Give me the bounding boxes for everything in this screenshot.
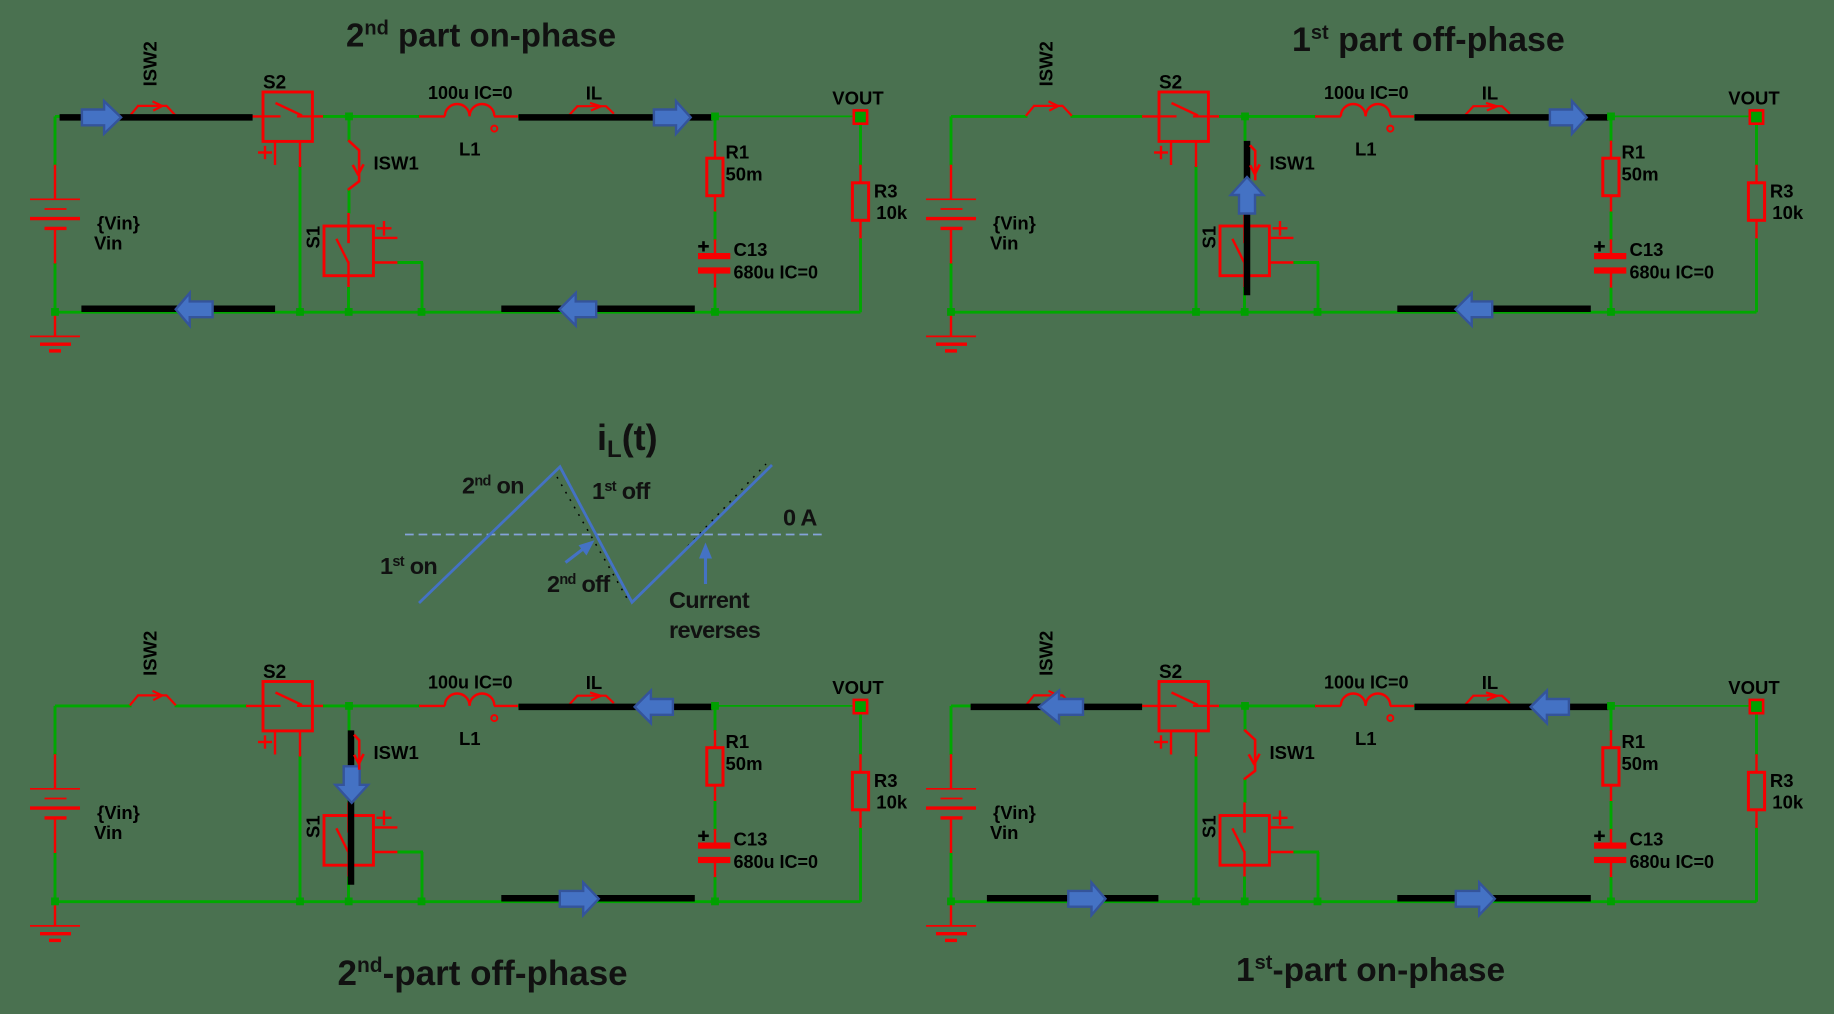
voltage source Vin (c1) [30, 165, 80, 264]
svg-text:50m: 50m [726, 753, 763, 774]
wire: c4 S1 bottom green to rail [1243, 877, 1246, 902]
wire: c2 S1 bottom terminal [1243, 262, 1245, 289]
wire: c2 S1 control pin1 stub [1269, 237, 1293, 239]
switch S2 box and contacts (c4) [1154, 682, 1208, 755]
ground symbol (c3) [30, 902, 80, 941]
svg-text:IL: IL [586, 672, 602, 693]
svg-text:IL: IL [586, 83, 602, 104]
svg-text:S1: S1 [303, 226, 324, 249]
resistor R3 (c3) [852, 772, 868, 810]
wire: c1 S1 control pin2 stub [373, 261, 398, 263]
wire: c2 R3 branch segments [1755, 123, 1758, 166]
svg-text:ISW1: ISW1 [374, 742, 419, 763]
wire: c3 top rail S2-to-node segment [323, 704, 350, 707]
current flow arrow 2 (c4) [1531, 691, 1569, 724]
svg-text:2nd off: 2nd off [547, 571, 610, 597]
inductor L1 phase dot (c2) [1387, 126, 1393, 132]
svg-text:R3: R3 [874, 180, 898, 201]
wire: c2 S2 left terminal stub [1142, 115, 1160, 117]
wire: c1 S1 control pin1 stub [373, 237, 397, 239]
current flow arrow 3 (c4) [1068, 883, 1105, 916]
svg-text:50m: 50m [1622, 753, 1659, 774]
wire: c3 L1 right terminal stub [494, 705, 520, 707]
svg-text:ISW2: ISW2 [140, 41, 161, 86]
wire: c1 S1 bottom terminal [347, 262, 349, 289]
wire: c4 R1 branch segments [1610, 706, 1613, 731]
svg-text:L1: L1 [1355, 728, 1377, 749]
wire: c4 left rail upper (Vin top) [950, 706, 953, 755]
current path bar: top-left rail (c4) [971, 704, 1143, 711]
capacitor C13 plus polarity mark (c1) [698, 241, 709, 251]
switch S1 box and contacts (c1) [324, 221, 392, 276]
current path bar: bottom-right rail (c3) [501, 895, 695, 902]
switch S1 box and contacts (c4) [1220, 811, 1288, 866]
waveform annotation arrow to 2nd-off crossing [566, 548, 586, 563]
wire: c3 bottom rail [55, 900, 715, 903]
capacitor C13 plus polarity mark (c4) [1594, 831, 1605, 841]
ground symbol (c4) [926, 902, 976, 941]
current sense arrow IL (c4) [1466, 692, 1510, 704]
output port VOUT (c1) [854, 110, 867, 123]
wire: c3 top rail L1-to-node segment (under current bar) [518, 704, 716, 707]
wire: c2 node-to-VOUT segment [1608, 115, 1750, 117]
wire: c4 S2 control wire down to bottom rail [1195, 756, 1198, 902]
svg-text:L1: L1 [1355, 138, 1377, 159]
wire: c2 R1 branch segments [1610, 116, 1613, 141]
svg-text:R1: R1 [1622, 142, 1646, 163]
output port VOUT (c4) [1750, 700, 1763, 713]
current path bar: top-right rail (c1) [519, 114, 713, 121]
wire: c4 L1 left terminal stub [1315, 705, 1341, 707]
current flow arrow 2 (c1) [654, 101, 691, 134]
junction nodes (c3) [51, 702, 719, 905]
current path bar: bottom-right rail (c1) [501, 306, 695, 313]
wire: c3 S2 control terminal stub [299, 731, 301, 757]
wire: c3 node-to-VOUT segment [712, 705, 854, 707]
voltage source Vin (c3) [30, 754, 80, 853]
wire: c3 bottom rail to R3 corner [715, 900, 861, 903]
wire: c2 bottom rail [951, 311, 1611, 314]
wire: c4 top rail left segment (before ISW2 hump) [951, 704, 1028, 707]
wire: c1 S2 control terminal stub [299, 142, 301, 168]
current flow arrow 1 (c2) [1550, 101, 1587, 134]
svg-text:680u IC=0: 680u IC=0 [734, 852, 819, 872]
wire: c3 S1 bottom terminal [347, 851, 349, 878]
wire: c3 S1 top terminal [347, 802, 349, 832]
wire: c2 top rail left segment (before ISW2 hump) [951, 115, 1028, 118]
svg-text:reverses: reverses [669, 617, 761, 643]
wire: c1 L1 left terminal stub [419, 115, 445, 117]
wire: c4 S2 control terminal stub [1195, 731, 1197, 757]
junction nodes (c1) [51, 113, 719, 316]
waveform triangle current trace [419, 465, 772, 603]
switch S1 box and contacts (c3) [324, 811, 392, 866]
svg-text:0 A: 0 A [783, 505, 817, 531]
wire: c1 L1 right terminal stub [494, 115, 520, 117]
svg-text:IL: IL [1482, 672, 1498, 693]
svg-text:ISW2: ISW2 [1036, 41, 1057, 86]
svg-text:Current: Current [669, 587, 750, 613]
svg-text:Vin: Vin [990, 233, 1018, 254]
svg-text:S2: S2 [1159, 73, 1182, 94]
svg-text:Vin: Vin [990, 822, 1018, 843]
svg-text:100u IC=0: 100u IC=0 [1324, 83, 1409, 103]
waveform dotted ideal rising edge [688, 464, 766, 546]
current path bar: S1 branch vertical (c2) [1244, 141, 1251, 295]
switch S2 box and contacts (c2) [1154, 92, 1208, 165]
output port VOUT (c2) [1750, 110, 1763, 123]
wire: c4 S1 top terminal [1243, 802, 1245, 832]
svg-text:{Vin}: {Vin} [993, 802, 1036, 823]
wire: c2 S2 control wire down to bottom rail [1195, 166, 1198, 312]
wire: c4 left rail lower (Vin bottom) [950, 853, 953, 902]
resistor R1 (c2) [1603, 158, 1619, 196]
wire: c1 bottom rail to R3 corner [715, 311, 861, 314]
svg-text:10k: 10k [876, 792, 908, 813]
svg-text:S1: S1 [303, 815, 324, 838]
svg-text:R1: R1 [1622, 731, 1646, 752]
inductor L1 (c2) [1341, 104, 1391, 116]
inductor L1 phase dot (c3) [491, 715, 497, 721]
wire: c4 top rail L1-to-node segment (under current bar) [1414, 704, 1612, 707]
svg-text:L1: L1 [459, 728, 481, 749]
wire: c2 S1 top terminal [1243, 213, 1245, 243]
capacitor C13 plus polarity mark (c2) [1594, 241, 1605, 251]
wire: c1 S2 right terminal stub [312, 115, 324, 117]
svg-text:{Vin}: {Vin} [993, 213, 1036, 234]
svg-text:ISW1: ISW1 [1270, 742, 1315, 763]
wire: c1 S1 top terminal [347, 213, 349, 243]
resistor R3 (c2) [1748, 183, 1764, 221]
capacitor C13 (c1) [698, 253, 730, 274]
wire: c2 top rail left segment (after ISW2 hump) [1071, 115, 1144, 118]
svg-text:10k: 10k [1772, 202, 1804, 223]
current sense arrow IL (c1) [570, 103, 614, 115]
svg-text:100u IC=0: 100u IC=0 [1324, 672, 1409, 692]
current path bar: bottom-right rail (c2) [1397, 306, 1591, 313]
current sense arrow ISW1 (c4) [1244, 730, 1260, 780]
svg-text:C13: C13 [1630, 829, 1664, 850]
wire: c3 node-to-L1 segment [349, 704, 420, 707]
wire: c1 top rail left segment (before ISW2 hump) [55, 115, 132, 118]
wire: c4 S1 control return wire [1293, 851, 1319, 854]
current sense arrow ISW2 (c3) [130, 691, 176, 706]
current sense arrow ISW1 (c1) [348, 140, 364, 190]
current flow arrow 4 (c4) [1456, 883, 1495, 916]
wire: c1 left rail upper (Vin top) [54, 116, 57, 165]
inductor L1 phase dot (c1) [491, 126, 497, 132]
current sense arrow IL (c3) [570, 692, 614, 704]
wire: c4 ISW1 branch lower green [1244, 779, 1247, 803]
svg-text:50m: 50m [1622, 163, 1659, 184]
current path bar: bottom-right rail (c4) [1397, 895, 1591, 902]
wire: c3 ISW1 branch lower green [348, 779, 351, 803]
wire: c4 node-to-L1 segment [1245, 704, 1316, 707]
svg-text:C13: C13 [734, 829, 768, 850]
inductor L1 phase dot (c4) [1387, 715, 1393, 721]
wire: c1 ISW1 branch lower green [348, 190, 351, 214]
svg-text:R3: R3 [1770, 770, 1794, 791]
current flow arrow 3 (c3) [335, 766, 368, 803]
svg-text:2nd on: 2nd on [462, 473, 524, 499]
wire: c3 top rail left segment (before ISW2 hump) [55, 704, 132, 707]
wire: c2 top rail S2-to-node segment [1219, 115, 1246, 118]
current flow arrow 3 (c1) [176, 293, 213, 326]
svg-text:50m: 50m [726, 163, 763, 184]
wire: c3 S1 control return wire [397, 851, 423, 854]
current path bar: top-right rail (c4) [1415, 704, 1609, 711]
wire: c2 bottom rail to R3 corner [1611, 311, 1757, 314]
svg-text:S2: S2 [263, 73, 286, 94]
wire: c3 top rail left segment (after ISW2 hump) [175, 704, 248, 707]
wire: c3 left rail upper (Vin top) [54, 706, 57, 755]
current flow arrow 1 (c3) [635, 691, 673, 724]
capacitor C13 (c3) [698, 843, 730, 864]
wire: c4 S1 control pin2 stub [1269, 851, 1294, 853]
svg-text:680u IC=0: 680u IC=0 [1630, 262, 1715, 282]
wire: c1 top rail S2-to-node segment [323, 115, 350, 118]
wire: c2 S2 right terminal stub [1208, 115, 1220, 117]
svg-text:C13: C13 [1630, 239, 1664, 260]
wire: c2 left rail upper (Vin top) [950, 116, 953, 165]
svg-text:Vin: Vin [94, 233, 122, 254]
svg-text:1st-part on-phase: 1st-part on-phase [1236, 952, 1505, 989]
wire: c4 S2 left terminal stub [1142, 705, 1160, 707]
current flow arrow 2 (c3) [560, 883, 599, 916]
svg-text:Vin: Vin [94, 822, 122, 843]
resistor R3 (c1) [852, 183, 868, 221]
waveform annotation arrow current reverses [704, 557, 707, 584]
svg-text:iL(t): iL(t) [597, 417, 658, 463]
wire: c3 S2 right terminal stub [312, 705, 324, 707]
wire: c1 S2 left terminal stub [246, 115, 264, 117]
current path bar: bottom-left rail (c1) [81, 306, 275, 313]
wire: c2 L1 left terminal stub [1315, 115, 1341, 117]
svg-text:ISW1: ISW1 [1270, 152, 1315, 173]
wire: c4 ISW1 branch upper green [1244, 706, 1247, 731]
wire: c1 ISW1 branch upper green [348, 116, 351, 141]
current flow arrow 1 (c1) [82, 101, 121, 134]
svg-text:1st on: 1st on [380, 553, 437, 579]
voltage source Vin (c4) [926, 754, 976, 853]
wire: c4 R3 branch segments [1755, 713, 1758, 756]
svg-text:VOUT: VOUT [832, 87, 884, 108]
svg-text:10k: 10k [1772, 792, 1804, 813]
wire: c3 L1 left terminal stub [419, 705, 445, 707]
svg-text:C13: C13 [734, 239, 768, 260]
wire: c2 S2 control terminal stub [1195, 142, 1197, 168]
current sense arrow ISW2 (c2) [1026, 101, 1072, 116]
wire: c1 top rail left segment (after ISW2 hump) [175, 115, 248, 118]
svg-text:{Vin}: {Vin} [97, 213, 140, 234]
wire: c3 S2 left terminal stub [246, 705, 264, 707]
svg-text:IL: IL [1482, 83, 1498, 104]
current flow arrow 2 (c2) [1455, 293, 1492, 326]
inductor L1 (c3) [445, 694, 495, 706]
wire: c4 bottom rail [951, 900, 1611, 903]
wire: c1 bottom rail [55, 311, 715, 314]
svg-text:VOUT: VOUT [1728, 677, 1780, 698]
svg-text:680u IC=0: 680u IC=0 [1630, 852, 1715, 872]
wire: c4 top rail left segment (after ISW2 hump) [1071, 704, 1144, 707]
capacitor C13 (c4) [1594, 843, 1626, 864]
svg-text:{Vin}: {Vin} [97, 802, 140, 823]
inductor L1 (c4) [1341, 694, 1391, 706]
current sense arrow ISW1 (c2) [1250, 145, 1260, 180]
wire: c2 left rail lower (Vin bottom) [950, 263, 953, 312]
svg-text:100u IC=0: 100u IC=0 [428, 83, 513, 103]
switch S2 box and contacts (c3) [258, 682, 312, 755]
wire: c1 R3 branch segments [859, 123, 862, 166]
capacitor C13 plus polarity mark (c3) [698, 831, 709, 841]
current sense arrow ISW2 (c1) [130, 101, 176, 116]
wire: c1 node-to-VOUT segment [712, 115, 854, 117]
svg-text:S1: S1 [1199, 815, 1220, 838]
wire: c4 node-to-VOUT segment [1608, 705, 1750, 707]
wire: c3 R3 branch segments [859, 713, 862, 756]
inductor L1 (c1) [445, 104, 495, 116]
output port VOUT (c3) [854, 700, 867, 713]
current flow arrow 3 (c2) [1231, 177, 1264, 214]
current path bar: S1 branch vertical (c3) [348, 730, 355, 884]
ground symbol (c1) [30, 312, 80, 351]
svg-text:1st off: 1st off [592, 478, 650, 504]
capacitor C13 (c2) [1594, 253, 1626, 274]
wire: c2 S1 bottom green to rail [1243, 287, 1246, 312]
current sense arrow ISW1 (c3) [354, 735, 364, 770]
switch S2 box and contacts (c1) [258, 92, 312, 165]
resistor R1 (c4) [1603, 748, 1619, 786]
svg-text:100u IC=0: 100u IC=0 [428, 672, 513, 692]
svg-text:ISW2: ISW2 [140, 631, 161, 676]
current flow arrow 1 (c4) [1039, 691, 1083, 724]
waveform dotted ideal falling edge [557, 477, 628, 600]
wire: c3 ISW1 branch upper green [348, 706, 351, 731]
svg-text:S2: S2 [263, 662, 286, 683]
svg-text:680u IC=0: 680u IC=0 [734, 262, 819, 282]
switch S1 box and contacts (c2) [1220, 221, 1288, 276]
wire: c1 top rail L1-to-node segment (under current bar) [518, 115, 716, 118]
wire: c1 left rail lower (Vin bottom) [54, 263, 57, 312]
svg-text:10k: 10k [876, 202, 908, 223]
wire: c3 S2 control wire down to bottom rail [299, 756, 302, 902]
wire: c3 S1 bottom green to rail [347, 877, 350, 902]
current flow arrow 4 (c1) [559, 293, 596, 326]
current path bar: top-right rail (c3) [519, 704, 713, 711]
wire: c1 S1 bottom green to rail [347, 287, 350, 312]
svg-text:VOUT: VOUT [832, 677, 884, 698]
wire: c4 top rail S2-to-node segment [1219, 704, 1246, 707]
wire: c4 S1 bottom terminal [1243, 851, 1245, 878]
svg-text:R3: R3 [874, 770, 898, 791]
wire: c1 R1 branch segments [714, 116, 717, 141]
wire: c1 S2 control wire down to bottom rail [299, 166, 302, 312]
svg-text:ISW1: ISW1 [374, 152, 419, 173]
current sense arrow ISW2 (c4) [1026, 691, 1072, 706]
current sense arrow IL (c2) [1466, 103, 1510, 115]
wire: c4 S1 control pin1 stub [1269, 826, 1293, 828]
wire: c2 ISW1 branch upper green [1244, 116, 1247, 141]
wire: c2 top rail L1-to-node segment (under current bar) [1414, 115, 1612, 118]
wire: c2 S1 control return wire [1293, 261, 1319, 264]
svg-text:R1: R1 [726, 731, 750, 752]
svg-text:R3: R3 [1770, 180, 1794, 201]
wire: c2 ISW1 branch lower green [1244, 190, 1247, 214]
wire: c3 R1 branch segments [714, 706, 717, 731]
junction nodes (c2) [947, 113, 1615, 316]
current path bar: bottom-left rail (c4) [987, 895, 1159, 902]
ground symbol (c2) [926, 312, 976, 351]
wire: c3 left rail lower (Vin bottom) [54, 853, 57, 902]
voltage source Vin (c2) [926, 165, 976, 264]
wire: c3 S1 control pin2 stub [373, 851, 398, 853]
svg-text:ISW2: ISW2 [1036, 631, 1057, 676]
waveform zero line (0 A dashed) [405, 534, 824, 536]
svg-text:R1: R1 [726, 142, 750, 163]
wire: c2 S1 control pin2 stub [1269, 261, 1294, 263]
wire: c2 L1 right terminal stub [1390, 115, 1416, 117]
wire: c4 L1 right terminal stub [1390, 705, 1416, 707]
resistor R3 (c4) [1748, 772, 1764, 810]
wire: c1 S1 control return wire [397, 261, 423, 264]
junction nodes (c4) [947, 702, 1615, 905]
wire: c4 S2 right terminal stub [1208, 705, 1220, 707]
resistor R1 (c1) [707, 158, 723, 196]
wire: c3 S1 control pin1 stub [373, 826, 397, 828]
wire: c2 node-to-L1 segment [1245, 115, 1316, 118]
resistor R1 (c3) [707, 748, 723, 786]
current path bar: top-right rail (c2) [1415, 114, 1609, 121]
svg-text:1st part off-phase: 1st part off-phase [1292, 21, 1565, 59]
wire: c4 bottom rail to R3 corner [1611, 900, 1757, 903]
svg-text:S2: S2 [1159, 662, 1182, 683]
current path bar: top-left rail (c1) [60, 114, 253, 121]
svg-text:S1: S1 [1199, 226, 1220, 249]
svg-text:L1: L1 [459, 138, 481, 159]
wire: c1 node-to-L1 segment [349, 115, 420, 118]
svg-text:VOUT: VOUT [1728, 87, 1780, 108]
